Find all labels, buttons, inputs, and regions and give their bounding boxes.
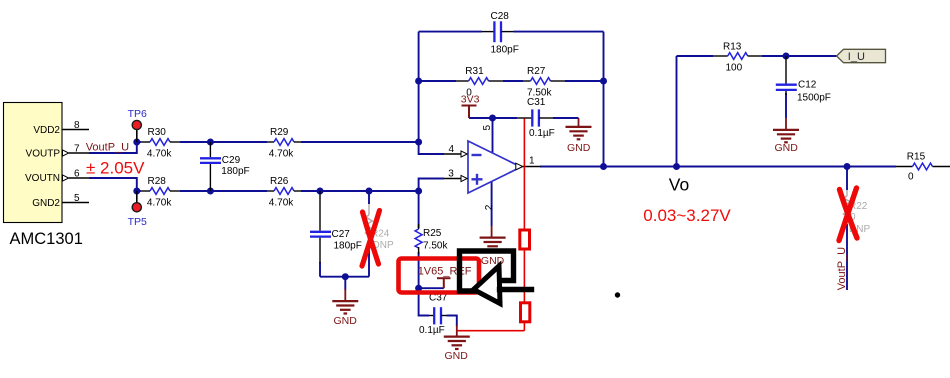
svg-text:0: 0 — [908, 171, 914, 182]
svg-text:4.70k: 4.70k — [269, 148, 294, 159]
svg-text:R25: R25 — [423, 228, 442, 239]
junction R31 row left — [415, 78, 422, 85]
svg-text:I_U: I_U — [848, 51, 865, 63]
svg-text:0.1µF: 0.1µF — [419, 325, 445, 336]
wire 3V3 row to C31 and GND — [469, 117, 517, 119]
wire R22 branch upper — [846, 167, 848, 191]
svg-text:R26: R26 — [270, 176, 289, 187]
svg-text:4.70k: 4.70k — [147, 197, 172, 208]
wire R13 row — [677, 55, 714, 57]
svg-text:R27: R27 — [527, 66, 546, 77]
svg-text:5: 5 — [482, 125, 493, 131]
resistor R28 — [141, 176, 180, 208]
wire R13 branch vertical — [676, 56, 678, 167]
wire pin6 to node B — [89, 178, 137, 191]
resistor R22 DNP (gray) — [844, 190, 871, 235]
svg-text:100: 100 — [726, 62, 743, 73]
capacitor C37 — [419, 292, 448, 336]
wire row A (R30-R29) — [137, 141, 141, 143]
svg-text:Vo: Vo — [669, 175, 689, 195]
wire — [301, 141, 419, 143]
svg-text:AMC1301: AMC1301 — [10, 230, 83, 248]
wire bottom rail C27-R24 — [320, 276, 369, 278]
svg-text:4.70k: 4.70k — [147, 148, 172, 159]
annotation black arrow head — [474, 266, 501, 304]
resistor R29 — [267, 127, 301, 160]
IC pin 5 GND2 — [32, 193, 89, 209]
junction R31 row right — [600, 78, 607, 85]
ground right of C31 — [566, 118, 592, 154]
junction R13 row at C12 — [783, 53, 790, 60]
svg-text:GND: GND — [334, 315, 358, 327]
junction pin5 at 3V3 row — [489, 115, 496, 122]
svg-text:GND: GND — [445, 350, 469, 362]
svg-text:180pF: 180pF — [221, 166, 249, 177]
ground under C27/R24 — [332, 289, 358, 327]
resistor R31 — [456, 66, 503, 98]
capacitor C31 — [517, 97, 555, 139]
svg-text:± 2.05V: ± 2.05V — [86, 159, 145, 178]
annotation red vertical wire — [523, 119, 525, 331]
node B junction — [133, 188, 140, 195]
resistor R30 — [141, 127, 180, 160]
junction output at R13 branch — [673, 163, 680, 170]
wire — [503, 80, 523, 82]
wire to op-amp pin4 — [419, 142, 444, 154]
junction bottom rail GND — [342, 273, 349, 280]
op-amp pin 5 — [482, 125, 493, 131]
svg-text:GND: GND — [567, 142, 591, 154]
resistor R24 DNP (gray) — [366, 204, 394, 251]
ground under op-amp pin2 — [480, 226, 506, 267]
wire 1V65 stub — [419, 287, 444, 289]
annotation black dot — [615, 292, 620, 297]
wire — [514, 31, 604, 33]
wire GND stub mid — [344, 277, 346, 290]
IC U1 AMC1301 body — [4, 103, 63, 223]
wire C37 to GND — [447, 316, 457, 327]
annotation red resistor box upper — [520, 230, 530, 249]
wire — [301, 190, 419, 192]
annotation red box around 1V65_REF — [399, 259, 480, 293]
annotation red resistor box lower — [521, 303, 530, 322]
IC pin 6 VOUTN — [25, 169, 89, 185]
svg-text:VDD2: VDD2 — [33, 125, 60, 136]
junction R24 top — [366, 188, 373, 195]
svg-text:R30: R30 — [148, 127, 167, 138]
test point TP5 — [128, 191, 147, 228]
svg-text:2: 2 — [484, 204, 495, 210]
wire — [180, 190, 267, 192]
svg-text:R13: R13 — [723, 41, 742, 52]
resistor R15 — [896, 151, 950, 182]
wire — [762, 55, 837, 57]
svg-text:8: 8 — [74, 120, 80, 131]
svg-text:R28: R28 — [148, 176, 167, 187]
test point TP6 — [128, 108, 147, 142]
ground under C12 — [773, 118, 799, 154]
svg-text:4: 4 — [449, 144, 455, 155]
IC pin 8 VDD2 — [33, 120, 89, 136]
wire op-amp pin5 — [492, 118, 494, 153]
resistor R25 — [415, 224, 448, 254]
wire R25 branch — [418, 191, 420, 228]
node A junction — [133, 139, 140, 146]
svg-text:C12: C12 — [798, 80, 817, 91]
wire C37 branch — [419, 288, 429, 315]
wire R22 branch lower — [846, 224, 848, 290]
junction C27 top — [317, 188, 324, 195]
svg-text:GND2: GND2 — [32, 198, 60, 209]
wire op-amp pin2 — [491, 182, 493, 227]
junction output at R22 branch — [844, 163, 851, 170]
svg-text:7: 7 — [74, 144, 80, 155]
svg-text:180pF: 180pF — [491, 45, 519, 56]
svg-text:1500pF: 1500pF — [797, 92, 831, 103]
svg-text:6: 6 — [74, 169, 80, 180]
capacitor C28 — [482, 11, 519, 56]
svg-text:0.03~3.27V: 0.03~3.27V — [643, 206, 731, 225]
IC label AMC1301 — [10, 230, 83, 248]
resistor R26 — [267, 176, 301, 208]
svg-text:TP6: TP6 — [128, 108, 147, 120]
junction output at feedback — [600, 163, 607, 170]
annotation black arrow shaft — [500, 287, 532, 292]
IC pin 7 VOUTP — [26, 144, 89, 160]
svg-text:C31: C31 — [527, 97, 546, 108]
power 1V65_REF — [437, 278, 451, 288]
capacitor C12 — [776, 56, 831, 103]
svg-text:3V3: 3V3 — [461, 94, 480, 106]
svg-text:VOUTN: VOUTN — [25, 173, 60, 184]
wire R24 branch upper — [368, 191, 370, 204]
svg-text:0.1µF: 0.1µF — [529, 128, 555, 139]
op-amp U1 — [468, 141, 521, 193]
svg-text:R29: R29 — [270, 127, 289, 138]
svg-text:C28: C28 — [491, 11, 510, 22]
svg-text:R31: R31 — [465, 66, 484, 77]
wire R24 branch lower — [368, 246, 370, 277]
svg-text:180pF: 180pF — [334, 241, 362, 252]
svg-text:C27: C27 — [332, 229, 351, 240]
capacitor C29 — [200, 142, 250, 191]
annotation red horizontal wire (1V65 to divider) — [478, 287, 524, 289]
svg-text:VoutP_U: VoutP_U — [86, 142, 129, 154]
op-amp pin 3 — [444, 168, 467, 181]
svg-text:TP5: TP5 — [128, 216, 147, 228]
capacitor C27 — [310, 191, 362, 263]
junction C29 top — [207, 139, 214, 146]
svg-text:3: 3 — [448, 168, 454, 179]
wire — [553, 117, 579, 119]
svg-text:5: 5 — [74, 193, 80, 204]
svg-text:VoutP_U: VoutP_U — [836, 247, 848, 290]
junction C29 bottom — [207, 188, 214, 195]
wire C12 lead lower — [785, 93, 787, 118]
svg-text:1V65_REF: 1V65_REF — [418, 265, 472, 277]
op-amp pin 1 output — [516, 156, 541, 170]
svg-text:VOUTP: VOUTP — [26, 149, 61, 160]
op-amp pin 4 — [444, 144, 467, 157]
junction 1V65 node — [415, 285, 422, 292]
svg-text:R15: R15 — [907, 151, 926, 162]
wire feedback left vertical — [418, 32, 420, 142]
wire pin7 to node A — [89, 142, 137, 153]
wire — [565, 80, 604, 82]
power 3V3 — [462, 106, 477, 119]
junction row B at x419 — [415, 188, 422, 195]
wire feedback right vertical — [603, 32, 605, 167]
wire — [180, 141, 267, 143]
ground under C37 — [444, 325, 470, 362]
connector tag I_U — [837, 49, 886, 63]
annotation red horizontal wire (gnd to divider) — [457, 330, 525, 332]
wire C27 branch lower — [319, 262, 321, 277]
svg-text:1: 1 — [529, 156, 535, 167]
op-amp pin 2 — [484, 204, 495, 210]
svg-text:7.50k: 7.50k — [423, 241, 448, 252]
wire row B (R28-R26) — [137, 190, 141, 192]
wire output row — [540, 166, 896, 168]
svg-text:C29: C29 — [222, 155, 241, 166]
svg-text:4.70k: 4.70k — [269, 197, 294, 208]
resistor R13 — [713, 41, 762, 73]
wire R31-R27 row — [419, 80, 456, 82]
resistor R27 — [523, 66, 565, 98]
wire to op-amp pin3 — [419, 179, 444, 192]
wire — [418, 252, 420, 288]
wire feedback top (C28) — [419, 31, 482, 33]
annotation black arrow (rect path) — [460, 251, 514, 291]
annotation red X over R22 — [839, 188, 857, 241]
junction feedback left at row A — [415, 139, 422, 146]
svg-text:GND: GND — [775, 142, 799, 154]
annotation red X over R24 — [362, 211, 380, 267]
